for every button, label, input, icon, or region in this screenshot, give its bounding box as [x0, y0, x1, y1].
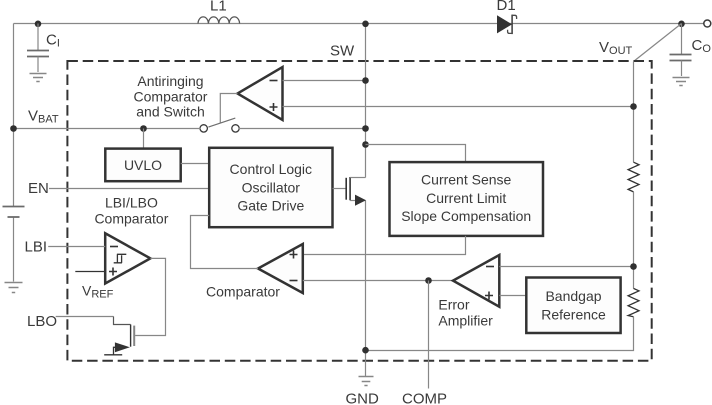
- svg-text:Slope Compensation: Slope Compensation: [401, 208, 531, 224]
- ground (CI): [30, 74, 47, 82]
- hysteresis symbol: [114, 254, 127, 263]
- wire between resistors: [633, 192, 635, 289]
- node SW to current sense tap: [362, 141, 369, 148]
- node SW top junction: [362, 21, 369, 28]
- switch blade: [208, 118, 235, 127]
- battery B1 plates: [3, 206, 25, 208]
- wire top rail from CI to output terminal: [14, 23, 704, 25]
- svg-text:VOUT: VOUT: [599, 39, 633, 57]
- wire divider bottom to GND rail: [366, 317, 634, 351]
- resistor R1: [628, 162, 639, 192]
- capacitor CO: [681, 24, 683, 55]
- node COMP tap: [425, 277, 432, 284]
- wire LBI input: [48, 246, 105, 248]
- svg-text:Comparator: Comparator: [94, 211, 168, 227]
- wire feedback divider vertical: [633, 62, 635, 163]
- svg-text:LBI/LBO: LBI/LBO: [105, 195, 158, 211]
- svg-text:Oscillator: Oscillator: [242, 179, 301, 195]
- wire LBO to Q2 drain: [56, 316, 114, 318]
- svg-text:EN: EN: [28, 180, 49, 197]
- wire UVLO stub: [143, 129, 145, 149]
- transistor Q1 power NMOS: [333, 188, 346, 190]
- control logic block U3: [209, 148, 332, 227]
- svg-text:Antiringing: Antiringing: [137, 73, 203, 89]
- wire EN to control logic: [49, 188, 209, 190]
- resistor R2: [628, 288, 639, 316]
- svg-text:CO: CO: [692, 37, 712, 55]
- IC boundary dashed box: [67, 61, 651, 361]
- op-amp U8 LBI/LBO comparator: [105, 233, 150, 283]
- node UVLO tap: [140, 125, 147, 132]
- ground (GND pin): [359, 377, 374, 386]
- op-amp U5 PWM comparator: [258, 244, 303, 293]
- svg-text:Reference: Reference: [541, 306, 606, 322]
- svg-text:and Switch: and Switch: [136, 104, 204, 120]
- wire error amp minus to divider: [499, 266, 633, 268]
- svg-text:Amplifier: Amplifier: [438, 313, 493, 329]
- wire VREF stub: [75, 271, 105, 273]
- op-amp antiringing comparator: [238, 67, 283, 120]
- svg-text:VBAT: VBAT: [28, 107, 59, 125]
- svg-text:CI: CI: [46, 32, 60, 50]
- bandgap reference block U7: [526, 278, 620, 334]
- svg-text:Error: Error: [438, 297, 469, 313]
- wire COMP pin: [428, 281, 430, 389]
- svg-text:Control Logic: Control Logic: [230, 161, 313, 177]
- svg-text:COMP: COMP: [402, 391, 447, 405]
- wire VBAT rail: [14, 128, 201, 130]
- svg-text:Comparator: Comparator: [206, 283, 280, 299]
- svg-text:VREF: VREF: [82, 282, 114, 300]
- wire SW vertical (drain rail): [365, 24, 367, 178]
- ground (CO): [673, 78, 690, 86]
- transistor Q2 LBO open drain: [130, 325, 132, 347]
- wire antiringing output to switch: [220, 94, 237, 124]
- svg-text:Current Limit: Current Limit: [426, 190, 506, 206]
- svg-text:LBI: LBI: [25, 239, 48, 256]
- node at VOUT / CO tap: [678, 21, 685, 28]
- op-amp U6 error amplifier: [453, 255, 499, 307]
- current sense block U4: [390, 162, 544, 236]
- svg-text:LBO: LBO: [27, 313, 57, 330]
- wire antiringing minus input to SW: [283, 80, 366, 82]
- svg-text:Current Sense: Current Sense: [421, 172, 511, 188]
- node at CI tap: [35, 21, 42, 28]
- switch contacts: [200, 125, 207, 132]
- UVLO block U2: [105, 149, 180, 182]
- svg-text:UVLO: UVLO: [124, 157, 162, 173]
- output terminal circle: [704, 20, 711, 27]
- wire UVLO to control logic: [181, 163, 210, 165]
- svg-text:L1: L1: [210, 0, 227, 15]
- wire left rail (VBAT battery branch): [13, 24, 15, 207]
- svg-text:Gate Drive: Gate Drive: [237, 198, 304, 214]
- wire SW to current sense box: [366, 145, 466, 163]
- wire PWM comparator output to control logic: [191, 216, 259, 269]
- wire error amp plus to bandgap: [499, 295, 526, 297]
- wire error amp output / COMP net: [303, 280, 453, 282]
- capacitor CI: [37, 24, 39, 51]
- svg-text:GND: GND: [346, 391, 380, 405]
- node GND junction: [362, 347, 369, 354]
- wire diagonal VOUT feed: [634, 24, 682, 62]
- wire antiringing plus input to VOUT divider: [283, 106, 634, 108]
- svg-text:SW: SW: [330, 42, 355, 59]
- ground (battery): [5, 283, 23, 293]
- svg-text:D1: D1: [497, 0, 516, 14]
- wire LBI/LBO comparator output to Q2 gate: [135, 258, 165, 335]
- wire current sense to PWM comparator plus: [303, 236, 466, 255]
- svg-text:Comparator: Comparator: [134, 88, 208, 104]
- svg-text:Bandgap: Bandgap: [545, 288, 601, 304]
